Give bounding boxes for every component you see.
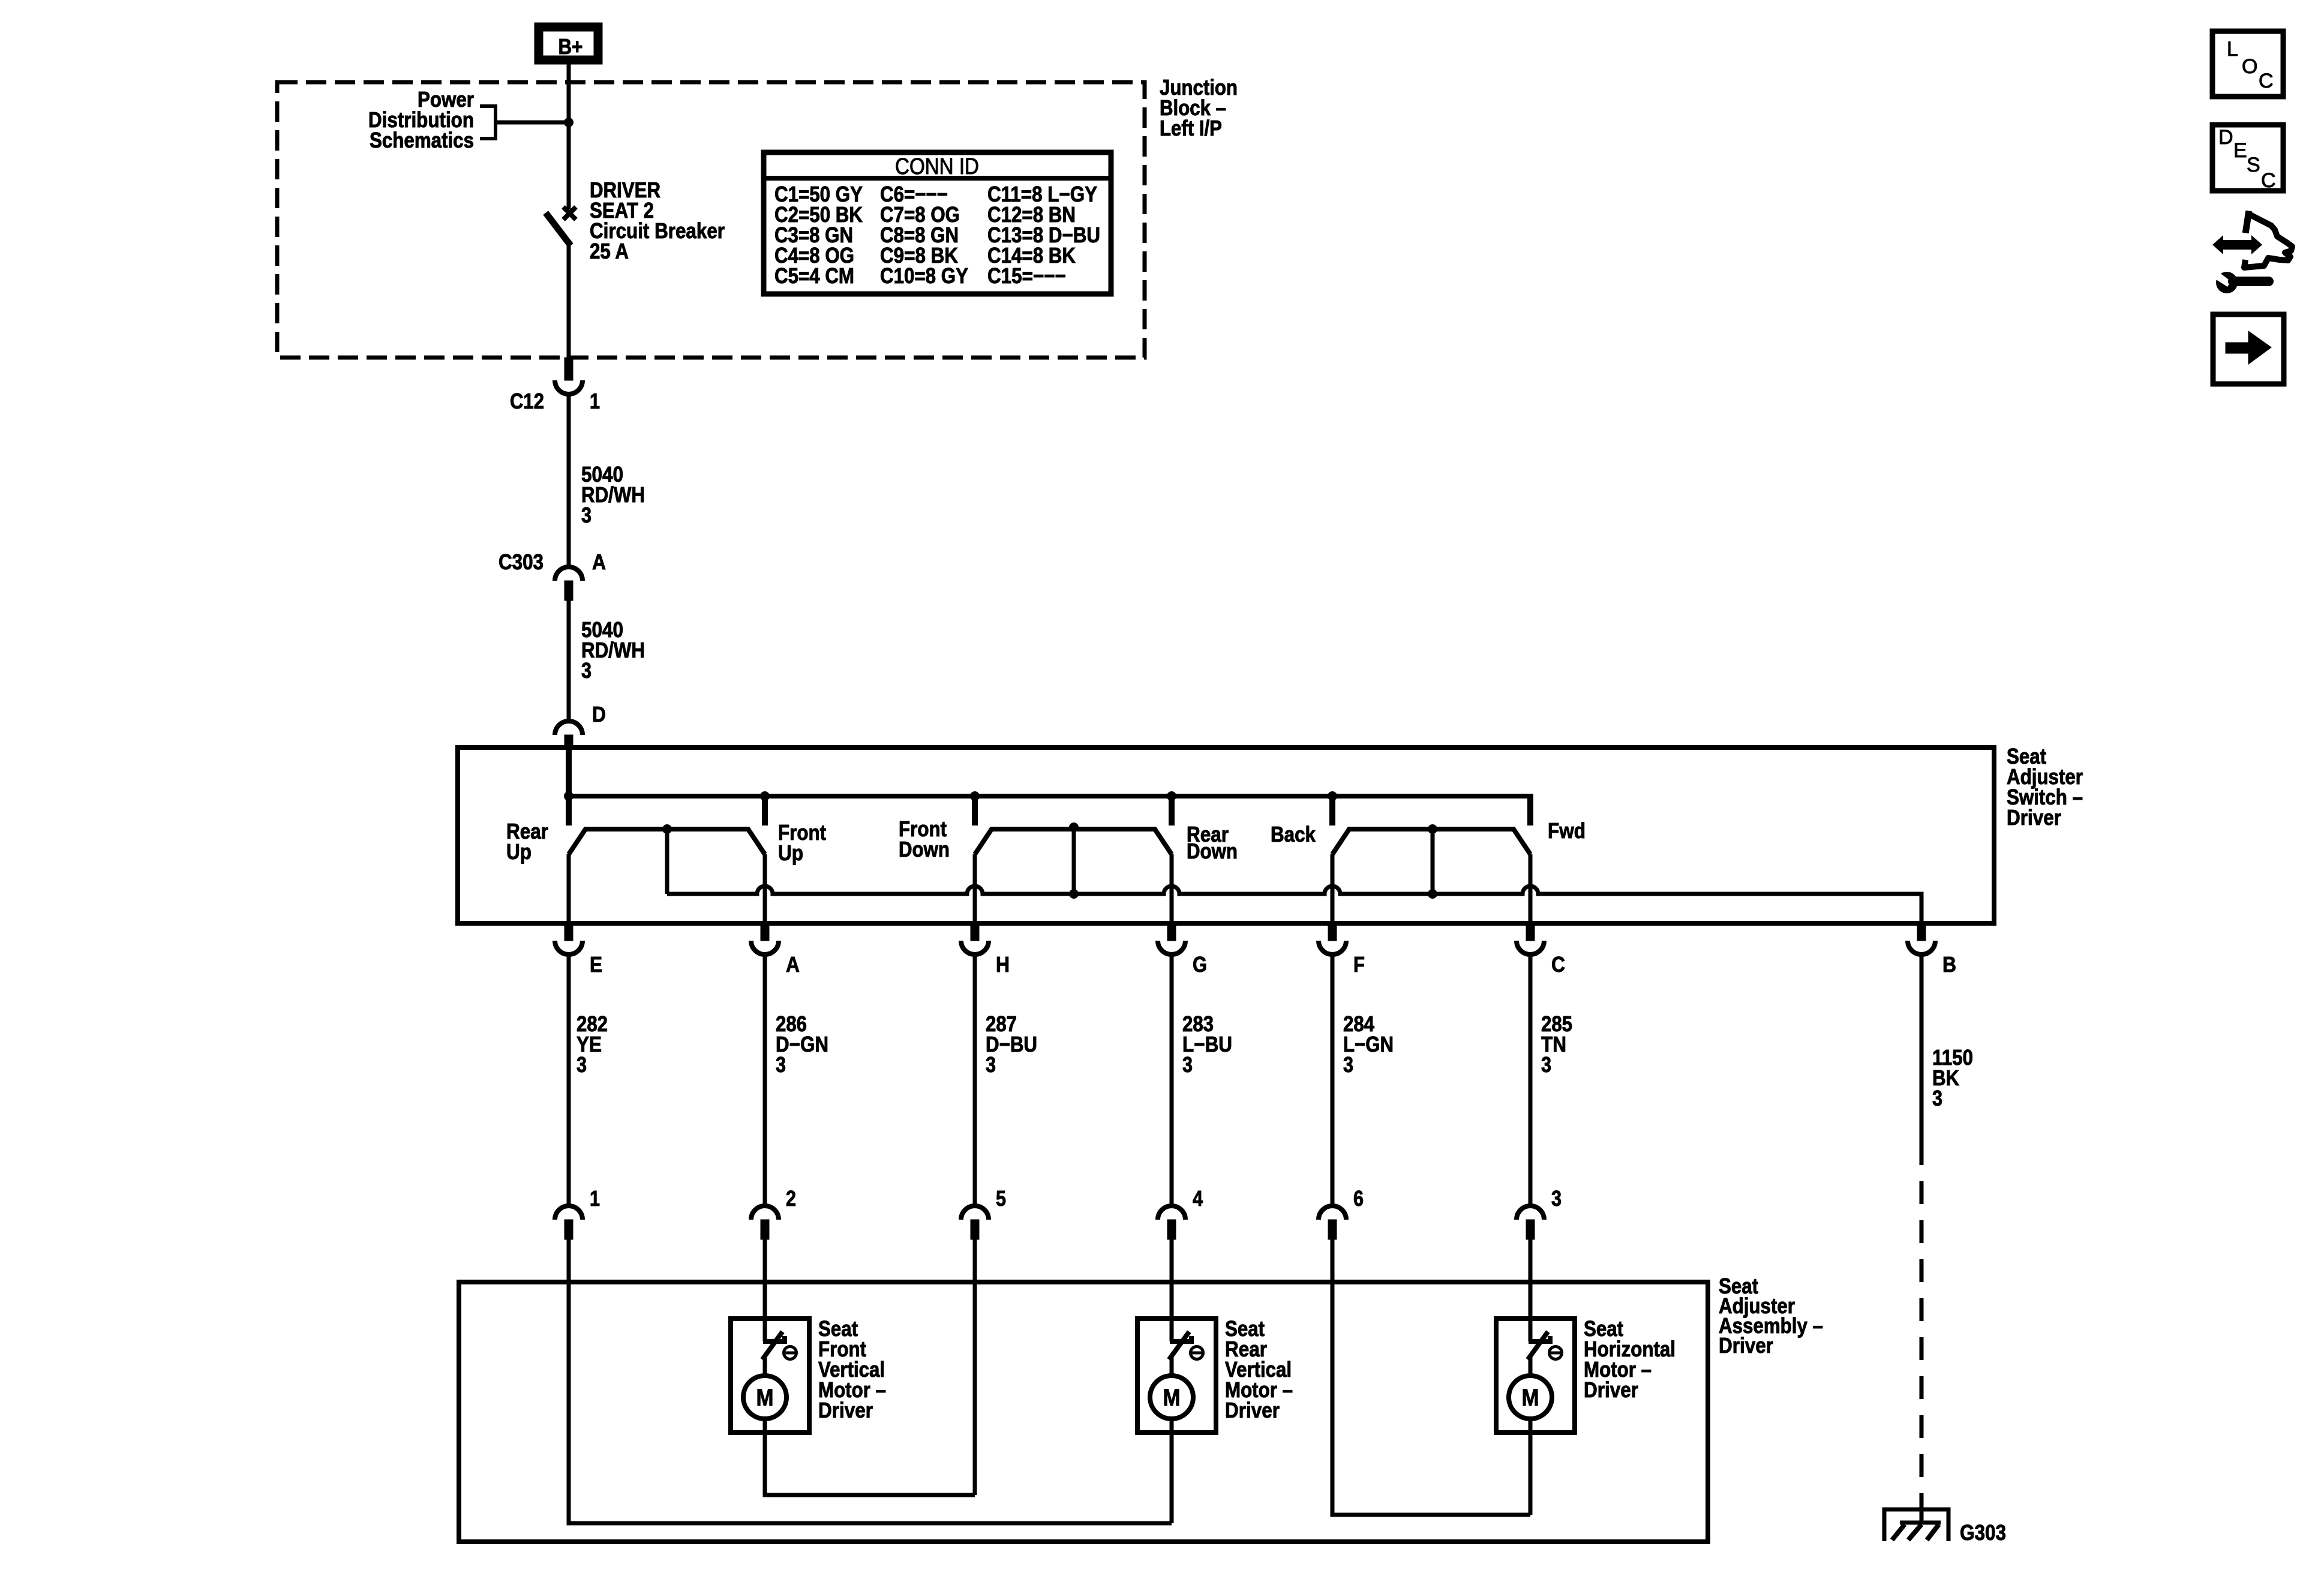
junction block dashed boundary box (277, 82, 1145, 358)
svg-text:D: D (592, 702, 606, 727)
connector switch pin E (565, 923, 573, 941)
svg-text:6: 6 (1353, 1186, 1364, 1211)
wire circuit 287 D−BU (973, 954, 977, 1206)
connector assembly pin 2 (751, 1206, 779, 1220)
ground G303 symbol (1884, 1509, 1948, 1541)
connector assembly pin 4 (1158, 1206, 1185, 1220)
wire switch common leg pair2 (1072, 829, 1076, 894)
wire switch output H (973, 854, 977, 924)
wire bus stub Front Down (972, 796, 978, 825)
svg-text:1: 1 (590, 1186, 600, 1211)
wire breaker to connector C12 (567, 242, 571, 360)
svg-text:Driver: Driver (818, 1398, 873, 1422)
wire bus stub Front Up (762, 796, 768, 825)
wire pin5 down (973, 1239, 977, 1495)
svg-text:3: 3 (1343, 1052, 1353, 1077)
svg-text:5: 5 (996, 1186, 1006, 1211)
table CONN ID frame (764, 152, 1111, 294)
svg-text:M: M (756, 1385, 774, 1411)
svg-text:C: C (2259, 70, 2274, 92)
svg-text:3: 3 (581, 503, 591, 527)
wire pin1 to rear motor low side (569, 1239, 1172, 1523)
svg-text:H: H (996, 952, 1010, 977)
connector switch pin C (1526, 923, 1535, 941)
svg-text:C15=−−−: C15=−−− (987, 263, 1066, 288)
connector pin D of seat adjuster switch (555, 721, 582, 735)
wire C303 to D circuit 5040 (567, 601, 571, 721)
wire into ground (1920, 1494, 1924, 1524)
wire switch output E (567, 854, 571, 924)
connector C12 pin 1 (565, 358, 573, 380)
svg-text:C5=4 CM: C5=4 CM (774, 263, 854, 288)
svg-text:2: 2 (786, 1186, 796, 1211)
svg-text:M: M (1522, 1385, 1539, 1411)
svg-text:Up: Up (506, 839, 532, 864)
bracket Power Distribution Schematics (480, 106, 496, 139)
connector C303 pin A (555, 567, 582, 581)
connector assembly pin 1 (555, 1206, 582, 1220)
svg-text:A: A (592, 550, 606, 574)
wire bus stub Back (1329, 796, 1335, 825)
connector switch pin G (1167, 923, 1176, 941)
node junction dot on feed wire (564, 118, 574, 127)
connector switch pin F (1328, 923, 1337, 941)
wire front motor low side to pin5 (765, 1419, 975, 1495)
power feed B+ symbol (539, 27, 598, 60)
svg-text:1: 1 (590, 389, 600, 413)
motor M Seat Horizontal Motor (1496, 1319, 1575, 1433)
circuit breaker swing arm (548, 215, 569, 243)
svg-text:Down: Down (899, 837, 950, 861)
wire horizontal motor bottom (1529, 1419, 1533, 1515)
switch contact Back / Fwd (1332, 829, 1530, 854)
svg-text:C12: C12 (510, 389, 544, 413)
svg-text:F: F (1353, 952, 1365, 977)
switch contact Rear Up / Front Up (569, 829, 765, 854)
node bus dot Front Down (970, 791, 980, 801)
svg-text:B+: B+ (559, 34, 583, 59)
svg-text:G: G (1193, 952, 1207, 977)
wire circuit 286 D−GN (763, 954, 767, 1206)
switch contact Front Down / Rear Down (975, 829, 1172, 854)
wire pin6 to horizontal motor low side (1332, 1239, 1530, 1515)
connector switch pin A (761, 923, 769, 941)
icon next-page arrow box (2213, 314, 2284, 384)
svg-text:C303: C303 (499, 550, 544, 574)
seat adjuster switch box (458, 748, 1994, 923)
node bus dot Rear Up (564, 791, 574, 801)
connector assembly pin 5 (961, 1206, 989, 1220)
wire branch to Power Distribution Schematics (496, 121, 569, 125)
wire switch common return to pin B (667, 886, 1921, 925)
icon vehicle outline with wrench (2212, 235, 2262, 254)
svg-text:E: E (590, 952, 602, 977)
svg-text:3: 3 (776, 1052, 786, 1077)
wire circuit 283 L−BU (1170, 954, 1174, 1206)
svg-text:Down: Down (1187, 839, 1238, 863)
icon DESC box (2212, 125, 2283, 191)
circuit breaker DRIVER SEAT 2 contact X (563, 207, 576, 220)
svg-text:Up: Up (778, 840, 803, 865)
svg-text:4: 4 (1193, 1186, 1203, 1211)
svg-text:Schematics: Schematics (370, 128, 474, 152)
wire circuit 282 YE (567, 954, 571, 1206)
svg-text:E: E (2233, 139, 2247, 162)
svg-text:CONN ID: CONN ID (895, 154, 979, 179)
seat adjuster assembly box (459, 1282, 1708, 1542)
svg-text:Driver: Driver (1719, 1333, 1773, 1358)
svg-text:Left I/P: Left I/P (1160, 116, 1222, 140)
motor M Seat Rear Vertical Motor (1137, 1319, 1216, 1433)
svg-text:Driver: Driver (2007, 805, 2061, 830)
svg-text:C: C (1551, 952, 1565, 977)
wire bus stub Rear Down (1169, 796, 1175, 825)
wire switch output G (1170, 854, 1174, 924)
connector switch pin B (1917, 923, 1926, 941)
node bus dot Rear Down (1167, 791, 1176, 801)
wire circuit 1150 BK solid part (1920, 954, 1924, 1142)
svg-text:C10=8 GY: C10=8 GY (880, 263, 968, 288)
wire switch common leg pair1 (665, 829, 669, 894)
svg-text:S: S (2247, 154, 2260, 176)
node dot pair2 bottom (1069, 889, 1079, 899)
node dot pair3 bottom (1428, 889, 1437, 899)
wire rear motor bottom (1170, 1419, 1174, 1523)
wire feed into bus (566, 745, 572, 825)
wire switch common leg pair3 (1431, 829, 1435, 894)
svg-text:Driver: Driver (1225, 1398, 1280, 1422)
svg-text:3: 3 (577, 1052, 587, 1077)
wire switch output C (1529, 854, 1533, 924)
icon LOC box (2212, 31, 2283, 97)
node bus dot Back (1328, 791, 1337, 801)
wire switch output A (763, 854, 767, 924)
svg-text:3: 3 (1932, 1086, 1942, 1110)
svg-text:O: O (2242, 55, 2257, 78)
svg-text:M: M (1163, 1385, 1181, 1411)
wire circuit 1150 BK dashed part (1920, 1142, 1924, 1496)
connector assembly pin 3 (1517, 1206, 1544, 1220)
svg-text:3: 3 (986, 1052, 996, 1077)
svg-text:3: 3 (1551, 1186, 1562, 1211)
svg-text:A: A (786, 952, 800, 977)
svg-text:C: C (2261, 169, 2276, 192)
wire C12 to C303 circuit 5040 (567, 394, 571, 568)
svg-text:Back: Back (1271, 822, 1316, 846)
svg-text:Fwd: Fwd (1548, 818, 1586, 843)
svg-text:L: L (2227, 38, 2238, 61)
svg-text:G303: G303 (1960, 1520, 2006, 1545)
node dot pair3 top (1428, 824, 1437, 834)
wire switch output F (1331, 854, 1335, 924)
svg-text:3: 3 (581, 658, 591, 683)
svg-text:3: 3 (1182, 1052, 1193, 1077)
wire circuit 284 L−GN (1331, 954, 1335, 1206)
node bus dot Front Up (760, 791, 770, 801)
wire bus corner stub Fwd (1527, 794, 1533, 825)
svg-text:3: 3 (1541, 1052, 1551, 1077)
wire circuit 285 TN (1529, 954, 1533, 1206)
connector switch pin H (971, 923, 979, 941)
svg-text:25 A: 25 A (590, 239, 629, 263)
node dot pair1 top (662, 824, 672, 834)
node dot pair2 top (1069, 822, 1079, 832)
svg-text:Driver: Driver (1584, 1377, 1638, 1402)
svg-text:D: D (2218, 126, 2233, 149)
motor M Seat Front Vertical Motor (731, 1319, 809, 1433)
svg-text:B: B (1942, 952, 1956, 977)
wire B+ to circuit breaker (567, 63, 571, 209)
bus wire inside switch (569, 794, 1530, 798)
connector assembly pin 6 (1319, 1206, 1346, 1220)
